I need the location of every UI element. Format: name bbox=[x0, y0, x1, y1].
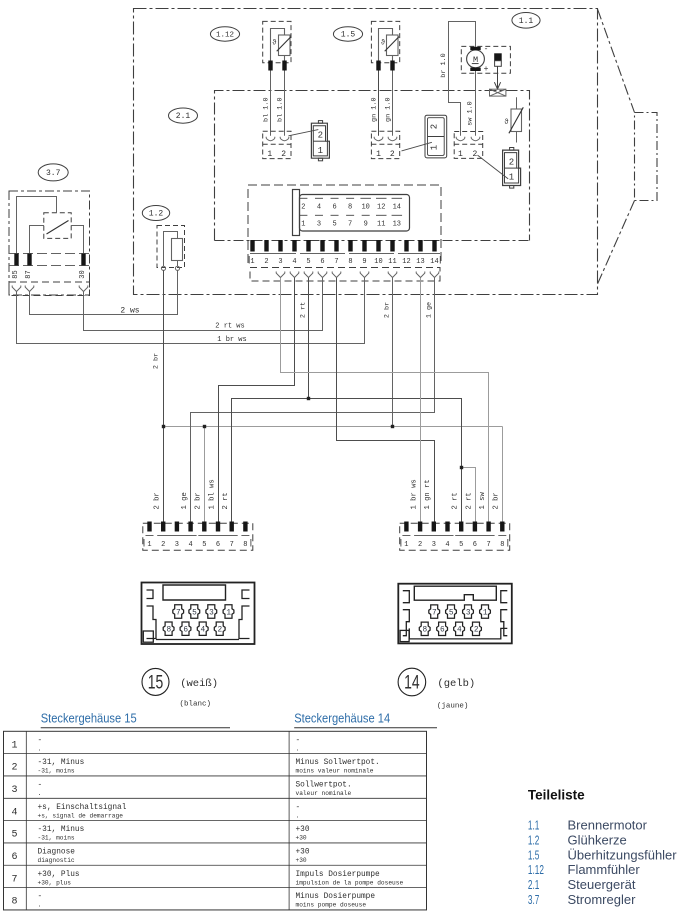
label oval 1.5 bbox=[333, 27, 362, 41]
svg-text:1: 1 bbox=[226, 609, 231, 617]
14-pin connector outer dashed box bbox=[248, 185, 441, 263]
wire label 2 br at glow plug bbox=[152, 353, 160, 369]
svg-text:6: 6 bbox=[440, 627, 445, 635]
plug 15 wire labels bbox=[154, 479, 231, 509]
svg-text:(gelb): (gelb) bbox=[437, 678, 475, 690]
svg-text:7: 7 bbox=[230, 541, 234, 549]
svg-text:moins valeur nominale: moins valeur nominale bbox=[296, 768, 374, 775]
svg-text:ϑ: ϑ bbox=[381, 40, 385, 48]
svg-text:9: 9 bbox=[364, 221, 368, 229]
svg-text:2: 2 bbox=[11, 763, 17, 774]
svg-text:-: - bbox=[38, 781, 43, 789]
wire label 2 br at pin11 bbox=[383, 302, 391, 318]
suppressor lead with arrow to control box bbox=[494, 66, 500, 89]
wire 1 sw : control pin3 to plug 14 pin7 bbox=[281, 278, 489, 522]
svg-text:1: 1 bbox=[267, 150, 272, 159]
overheat sensor B1.5 thermistor diagonal bbox=[385, 37, 399, 52]
control unit internal thermistor bbox=[509, 97, 523, 142]
connector X1.1 socket cups bbox=[456, 137, 480, 141]
svg-text:5: 5 bbox=[192, 609, 197, 617]
label oval 1.12 bbox=[210, 27, 239, 41]
svg-text:Überhitzungsfühler: Überhitzungsfühler bbox=[568, 847, 678, 862]
wire 2 rt : control pin5 to plug 15 pin7 and plug 14 pins 5+6 bbox=[232, 278, 476, 522]
svg-text:6: 6 bbox=[332, 204, 336, 212]
svg-text:br 1.0: br 1.0 bbox=[440, 53, 448, 77]
svg-text:4: 4 bbox=[201, 627, 206, 635]
svg-text:6: 6 bbox=[183, 627, 188, 635]
label oval 1.1 bbox=[512, 12, 540, 28]
pointer line plug to X1.5 bbox=[402, 142, 432, 151]
svg-text:1: 1 bbox=[458, 150, 463, 159]
svg-text:2: 2 bbox=[218, 627, 223, 635]
svg-text:2: 2 bbox=[472, 150, 477, 159]
svg-text:2: 2 bbox=[318, 131, 323, 141]
svg-text:7: 7 bbox=[348, 221, 352, 229]
svg-text:3: 3 bbox=[11, 785, 17, 796]
svg-text:-: - bbox=[38, 893, 43, 901]
svg-text:2: 2 bbox=[281, 150, 286, 159]
connector housing 15 face view bbox=[142, 583, 255, 645]
overheat sensor B1.5 theta symbol bbox=[381, 40, 385, 48]
svg-text:2 br: 2 br bbox=[493, 492, 501, 509]
wire br 1.0 from motor plus brush bbox=[449, 22, 476, 136]
svg-text:13: 13 bbox=[393, 221, 401, 229]
svg-text:8: 8 bbox=[348, 204, 352, 212]
svg-text:+30, plus: +30, plus bbox=[38, 879, 72, 886]
K3.7 socket dashed box bbox=[9, 282, 90, 296]
flame sensor B1.12 thermistor body bbox=[279, 35, 291, 56]
svg-text:.: . bbox=[38, 790, 42, 797]
svg-text:2: 2 bbox=[474, 627, 479, 635]
svg-text:9: 9 bbox=[362, 258, 366, 266]
svg-text:15: 15 bbox=[148, 673, 164, 694]
svg-text:2 rt: 2 rt bbox=[299, 302, 307, 318]
svg-text:Stromregler: Stromregler bbox=[568, 892, 637, 907]
svg-text:ϑ: ϑ bbox=[272, 40, 276, 48]
svg-text:4: 4 bbox=[317, 204, 321, 212]
wire 1 br ws : K3.7 pin85 to control connector pin9 bbox=[17, 278, 365, 344]
connector X1.1 dashed box bbox=[454, 132, 483, 159]
svg-text:6: 6 bbox=[473, 541, 477, 549]
svg-text:1.1: 1.1 bbox=[519, 17, 534, 26]
glow plug R1.2 terminal eyelets bbox=[161, 266, 179, 270]
svg-text:1 br ws: 1 br ws bbox=[217, 336, 246, 344]
svg-text:6: 6 bbox=[320, 258, 324, 266]
svg-text:14: 14 bbox=[430, 258, 438, 266]
glow plug R1.2 element body bbox=[172, 239, 183, 261]
wire 2 ws : K3.7 pin87 to R1.2 bbox=[30, 270, 178, 314]
svg-text:gn 1.0: gn 1.0 bbox=[384, 97, 392, 121]
motor polarity plus bbox=[484, 65, 489, 74]
svg-text:.: . bbox=[296, 812, 300, 819]
14-pin connector base rail bbox=[250, 253, 440, 255]
svg-text:+30: +30 bbox=[296, 826, 310, 834]
svg-text:1: 1 bbox=[376, 150, 381, 159]
svg-text:2: 2 bbox=[161, 541, 165, 549]
svg-text:2: 2 bbox=[418, 541, 422, 549]
wire bl 1.0 from B1.12 pin1 bbox=[270, 71, 272, 136]
14-pin mating socket dashed box bbox=[250, 268, 440, 282]
svg-text:8: 8 bbox=[500, 541, 504, 549]
wire 1 ge : control pin14 to plug 15 pin4 bbox=[191, 278, 435, 522]
suppressor capacitor on motor bbox=[494, 53, 502, 66]
svg-text:gn 1.0: gn 1.0 bbox=[370, 97, 378, 121]
svg-text:2 br: 2 br bbox=[154, 492, 162, 509]
svg-text:impulsion de la pompe doseuse: impulsion de la pompe doseuse bbox=[296, 879, 404, 886]
svg-text:Impuls Dosierpumpe: Impuls Dosierpumpe bbox=[296, 871, 381, 879]
svg-text:8: 8 bbox=[423, 627, 428, 635]
svg-text:1.1: 1.1 bbox=[528, 818, 540, 833]
text (blanc) bbox=[180, 701, 212, 709]
svg-text:2 rt ws: 2 rt ws bbox=[215, 322, 244, 330]
relay K3.7 internal leads bbox=[17, 197, 84, 254]
flame sensor B1.12 theta symbol bbox=[272, 40, 276, 48]
mating plug housing for X1.5 (rotated) bbox=[425, 115, 447, 158]
control unit U2.1 dashed box (Steuergeraet) bbox=[215, 91, 530, 241]
wire 1 br ws : control pin13 to plug 14 pin2 bbox=[420, 278, 422, 522]
svg-text:-31, moins: -31, moins bbox=[38, 835, 75, 842]
svg-text:Diagnose: Diagnose bbox=[38, 848, 76, 856]
wire label bl 1.0 (left) bbox=[262, 97, 270, 121]
svg-text:5: 5 bbox=[202, 541, 206, 549]
svg-text:6: 6 bbox=[216, 541, 220, 549]
wire 2 br branch to plug 15 pin5 bbox=[204, 427, 206, 522]
svg-text:3: 3 bbox=[209, 609, 214, 617]
svg-text:1 bl ws: 1 bl ws bbox=[208, 479, 216, 509]
svg-text:2 ws: 2 ws bbox=[120, 307, 139, 316]
svg-text:5: 5 bbox=[459, 541, 463, 549]
circle label 14 bbox=[398, 668, 426, 696]
junction 2 br at pin11 bbox=[391, 425, 394, 428]
svg-text:11: 11 bbox=[388, 258, 396, 266]
svg-text:2: 2 bbox=[429, 124, 439, 129]
svg-text:.: . bbox=[38, 902, 42, 909]
svg-text:1: 1 bbox=[250, 258, 254, 266]
svg-text:Minus Sollwertpot.: Minus Sollwertpot. bbox=[296, 759, 380, 767]
svg-text:-: - bbox=[296, 737, 301, 745]
label oval 1.2 bbox=[142, 206, 169, 221]
connector X1.12 dashed box bbox=[263, 131, 291, 158]
wire label gn 1.0 (right) bbox=[384, 97, 392, 121]
svg-text:1: 1 bbox=[404, 541, 408, 549]
junction 2 rt at pin5 bbox=[307, 397, 310, 400]
svg-text:30: 30 bbox=[79, 270, 87, 278]
svg-text:sw 1.0: sw 1.0 bbox=[467, 101, 475, 125]
svg-text:7: 7 bbox=[486, 541, 490, 549]
svg-text:bl 1.0: bl 1.0 bbox=[262, 97, 270, 121]
svg-text:1 ge: 1 ge bbox=[181, 492, 189, 509]
svg-text:diagnostic: diagnostic bbox=[38, 857, 75, 864]
svg-text:85: 85 bbox=[12, 270, 20, 278]
plug X1.1 cavity numbers bbox=[509, 157, 514, 182]
svg-text:Steckergehäuse 15: Steckergehäuse 15 bbox=[41, 712, 137, 726]
svg-text:+30: +30 bbox=[296, 857, 307, 864]
svg-text:bl 1.0: bl 1.0 bbox=[276, 97, 284, 121]
header underline 15 bbox=[41, 727, 230, 729]
svg-text:3: 3 bbox=[432, 541, 436, 549]
heater outline funnel to exhaust stub bbox=[598, 9, 658, 284]
svg-text:8: 8 bbox=[243, 541, 247, 549]
wire 1 gn rt : control pin7 to plug 14 pin3 bbox=[337, 278, 435, 522]
svg-text:1.5: 1.5 bbox=[528, 847, 540, 862]
label oval 2.1 bbox=[169, 108, 198, 123]
plug 14 blade pins bbox=[404, 522, 504, 532]
plug 14 pin numbers 1-8 bbox=[401, 539, 508, 549]
svg-text:+: + bbox=[484, 65, 489, 74]
wire label 1 ge at pin14 bbox=[425, 302, 433, 318]
svg-text:-: - bbox=[296, 804, 301, 812]
svg-text:8: 8 bbox=[166, 627, 171, 635]
circle label 15 bbox=[142, 668, 169, 695]
connector X1.5 pin numbers bbox=[376, 150, 395, 159]
svg-text:5: 5 bbox=[449, 610, 454, 618]
svg-text:14: 14 bbox=[404, 673, 420, 694]
14-pin socket wire cups bbox=[276, 272, 439, 278]
svg-text:2.1: 2.1 bbox=[528, 877, 540, 892]
svg-text:1 br ws: 1 br ws bbox=[411, 479, 419, 509]
wire label 1 br ws bbox=[217, 336, 246, 344]
svg-text:Steuergerät: Steuergerät bbox=[568, 877, 636, 892]
wire 2 br bus horizontal bbox=[164, 426, 503, 428]
wire label bl 1.0 (right) bbox=[276, 97, 284, 121]
svg-text:7: 7 bbox=[11, 874, 17, 885]
connector X1.12 socket cups bbox=[266, 137, 289, 141]
svg-text:valeur nominale: valeur nominale bbox=[296, 790, 352, 797]
relay K3.7 contact dashed box bbox=[44, 213, 71, 239]
svg-text:5: 5 bbox=[11, 830, 17, 841]
pointer line plug to X1.1 bbox=[478, 155, 509, 179]
K3.7 socket wire cups bbox=[12, 286, 88, 292]
svg-text:2 rt: 2 rt bbox=[465, 492, 473, 509]
svg-text:4: 4 bbox=[11, 807, 17, 818]
svg-text:2 br: 2 br bbox=[152, 353, 160, 369]
svg-text:Steckergehäuse 14: Steckergehäuse 14 bbox=[294, 712, 390, 726]
wire label br 1.0 bbox=[440, 53, 448, 77]
pin function table frame bbox=[4, 731, 427, 910]
motor polarity minus bbox=[484, 45, 489, 54]
plug X1.5 cavity numbers bbox=[429, 124, 439, 150]
connector body cavity numbers 1-14 with overlines bbox=[299, 198, 402, 228]
svg-text:Flammfühler: Flammfühler bbox=[568, 862, 641, 877]
interference-suppression terminal (box with X) bbox=[490, 89, 506, 96]
svg-text:3: 3 bbox=[175, 541, 179, 549]
flame sensor B1.12 thermistor diagonal bbox=[277, 37, 291, 52]
wire label gn 1.0 (left) bbox=[370, 97, 378, 121]
wire bl 1.0 from B1.12 pin2 bbox=[284, 71, 286, 136]
svg-text:-: - bbox=[38, 737, 43, 745]
svg-text:1.12: 1.12 bbox=[528, 862, 544, 877]
svg-text:+30: +30 bbox=[296, 848, 310, 856]
wire gn 1.0 from B1.5 pin2 bbox=[392, 71, 394, 136]
burner motor M1.1 dashed box bbox=[461, 46, 510, 73]
overheat sensor B1.5 dashed box bbox=[371, 21, 399, 62]
svg-text:3.7: 3.7 bbox=[528, 892, 540, 907]
svg-text:+30: +30 bbox=[296, 835, 307, 842]
wire label 2 ws bbox=[120, 307, 139, 316]
heading Teileliste bbox=[528, 788, 585, 803]
plug 15 blade pins bbox=[147, 522, 247, 532]
svg-text:(blanc): (blanc) bbox=[180, 701, 212, 709]
svg-text:Brennermotor: Brennermotor bbox=[568, 818, 648, 833]
text (gelb) bbox=[437, 678, 475, 690]
flame sensor B1.12 terminal pins bbox=[268, 61, 286, 71]
svg-text:.: . bbox=[38, 745, 42, 752]
svg-text:4: 4 bbox=[457, 627, 462, 635]
svg-text:1 gn rt: 1 gn rt bbox=[424, 479, 432, 509]
parts list items bbox=[528, 818, 677, 908]
mating plug housing for X1.12 bbox=[311, 121, 329, 161]
svg-text:1: 1 bbox=[483, 610, 488, 618]
14-pin connector pin numbers 1-14 bbox=[249, 256, 440, 266]
current regulator K3.7 dashed box bbox=[9, 191, 90, 295]
svg-text:8: 8 bbox=[11, 897, 17, 908]
svg-text:1: 1 bbox=[11, 740, 17, 751]
svg-text:2: 2 bbox=[301, 204, 305, 212]
plug 14 base rail bbox=[402, 535, 506, 537]
svg-text:2: 2 bbox=[264, 258, 268, 266]
K3.7 terminal strip rails bbox=[9, 254, 90, 266]
wire 2 br from control connector pin11 bbox=[392, 278, 394, 427]
svg-text:6: 6 bbox=[11, 852, 17, 863]
flame sensor B1.12 dashed box bbox=[263, 21, 291, 62]
svg-text:Glühkerze: Glühkerze bbox=[568, 832, 627, 847]
plug 15 base rail bbox=[146, 535, 250, 537]
K3.7 terminal pins bbox=[14, 254, 85, 266]
svg-text:7: 7 bbox=[334, 258, 338, 266]
wire label 2 rt at pin5 bbox=[299, 302, 307, 318]
14-pin connector blade pins bbox=[250, 240, 436, 252]
svg-text:12: 12 bbox=[377, 204, 385, 212]
svg-text:+s, signal de demarrage: +s, signal de demarrage bbox=[38, 812, 124, 819]
svg-text:Minus Dosierpumpe: Minus Dosierpumpe bbox=[296, 893, 376, 901]
header underline 14 bbox=[294, 727, 437, 729]
plug housing 15 dashed box bbox=[143, 523, 253, 550]
svg-text:3: 3 bbox=[278, 258, 282, 266]
svg-text:.: . bbox=[296, 745, 300, 752]
svg-text:+30, Plus: +30, Plus bbox=[38, 871, 80, 879]
wire label 2 rt ws bbox=[215, 322, 244, 330]
svg-text:1.5: 1.5 bbox=[341, 31, 356, 40]
svg-text:14: 14 bbox=[393, 204, 401, 212]
relay K3.7 switch contact bbox=[47, 221, 69, 235]
svg-text:moins pompe doseuse: moins pompe doseuse bbox=[296, 902, 367, 909]
svg-text:Sollwertpot.: Sollwertpot. bbox=[296, 781, 352, 789]
mating plug housing for X1.1 bbox=[503, 148, 521, 189]
svg-text:2: 2 bbox=[390, 150, 395, 159]
motor M1.1 circle bbox=[467, 50, 485, 68]
svg-text:87: 87 bbox=[25, 270, 33, 278]
svg-text:5: 5 bbox=[332, 221, 336, 229]
table header Steckergehaeuse 15 bbox=[41, 712, 137, 726]
svg-text:-: - bbox=[484, 45, 489, 54]
overheat sensor B1.5 thermistor body bbox=[387, 35, 399, 56]
svg-text:1.12: 1.12 bbox=[216, 32, 234, 40]
svg-text:-31, Minus: -31, Minus bbox=[38, 826, 85, 834]
svg-text:1 sw: 1 sw bbox=[479, 492, 487, 510]
wire gn 1.0 from B1.5 pin1 bbox=[378, 71, 380, 136]
svg-text:(weiß): (weiß) bbox=[180, 678, 218, 690]
svg-text:3: 3 bbox=[466, 610, 471, 618]
wire label sw 1.0 bbox=[467, 101, 475, 125]
wire 1 bl ws : control pin4 to plug 15 pin6 bbox=[219, 278, 295, 522]
svg-text:Teileliste: Teileliste bbox=[528, 788, 585, 803]
svg-text:10: 10 bbox=[361, 204, 369, 212]
text (jaune) bbox=[437, 703, 469, 711]
svg-text:3: 3 bbox=[317, 221, 321, 229]
heater unit outline (dash-dot boundary) bbox=[134, 9, 598, 295]
svg-text:2 br: 2 br bbox=[195, 492, 203, 509]
wire sw 1.0 from motor minus brush bbox=[475, 71, 477, 136]
svg-text:2 rt: 2 rt bbox=[452, 492, 460, 509]
motor M1.1 brushes bbox=[470, 47, 480, 71]
svg-text:4: 4 bbox=[188, 541, 192, 549]
plug 15 pin numbers 1-8 bbox=[144, 539, 251, 549]
svg-text:11: 11 bbox=[377, 221, 385, 229]
plug X1.12 cavity numbers bbox=[318, 131, 323, 156]
svg-text:7: 7 bbox=[432, 610, 437, 618]
flame sensor B1.12 lead frame bbox=[271, 29, 285, 63]
svg-text:1: 1 bbox=[147, 541, 151, 549]
overheat sensor B1.5 terminal pins bbox=[376, 61, 394, 71]
svg-text:4: 4 bbox=[445, 541, 449, 549]
svg-text:3.7: 3.7 bbox=[46, 169, 61, 178]
svg-text:8: 8 bbox=[348, 258, 352, 266]
svg-text:-31, Minus: -31, Minus bbox=[38, 759, 85, 767]
overheat sensor B1.5 lead frame bbox=[379, 29, 393, 63]
svg-text:10: 10 bbox=[374, 258, 382, 266]
svg-text:1 ge: 1 ge bbox=[425, 302, 433, 318]
glow plug R1.2 dashed box bbox=[157, 226, 185, 268]
svg-text:2 br: 2 br bbox=[383, 302, 391, 318]
control unit 14-pin connector body bbox=[293, 190, 410, 236]
wire 2 br branch to plug 14 pin8 bbox=[502, 427, 504, 522]
svg-text:2 rt: 2 rt bbox=[222, 492, 230, 509]
connector X1.1 pin numbers bbox=[458, 150, 478, 159]
svg-text:1.2: 1.2 bbox=[149, 210, 164, 219]
plug housing 14 dashed box bbox=[400, 523, 510, 550]
label oval 3.7 bbox=[38, 164, 68, 181]
pin function table contents bbox=[11, 737, 403, 909]
svg-text:+s, Einschaltsignal: +s, Einschaltsignal bbox=[38, 804, 127, 812]
svg-text:ϑ: ϑ bbox=[504, 119, 508, 127]
pointer line plug to X1.12 bbox=[289, 130, 319, 136]
table header Steckergehaeuse 14 bbox=[294, 712, 390, 726]
svg-text:1: 1 bbox=[318, 146, 323, 156]
svg-text:1: 1 bbox=[301, 221, 305, 229]
svg-text:2.1: 2.1 bbox=[176, 112, 191, 121]
junction 2 br at glow plug wire bbox=[162, 425, 165, 428]
motor M1.1 letter M bbox=[472, 55, 479, 65]
junction 2 rt split to 14.6 bbox=[460, 466, 463, 469]
glow plug R1.2 leads bbox=[164, 232, 178, 267]
svg-text:2: 2 bbox=[509, 157, 514, 167]
K3.7 terminal labels 85 87 30 bbox=[12, 270, 87, 278]
svg-text:-31, moins: -31, moins bbox=[38, 768, 75, 775]
text (weiss) bbox=[180, 678, 218, 690]
svg-text:13: 13 bbox=[416, 258, 424, 266]
svg-text:12: 12 bbox=[402, 258, 410, 266]
svg-text:1.2: 1.2 bbox=[528, 832, 540, 847]
svg-text:1: 1 bbox=[509, 173, 514, 183]
svg-text:7: 7 bbox=[176, 609, 181, 617]
wire 2 br : R1.2 to plug 15 pin2 bbox=[163, 270, 165, 521]
plug 14 wire labels bbox=[411, 479, 501, 509]
connector X1.12 pin numbers bbox=[267, 150, 286, 159]
internal thermistor theta symbol bbox=[504, 119, 508, 127]
connector housing 14 face view bbox=[398, 584, 512, 644]
junction 2 br branch 15.5 bbox=[203, 425, 206, 428]
connector X1.5 dashed box bbox=[371, 131, 399, 158]
